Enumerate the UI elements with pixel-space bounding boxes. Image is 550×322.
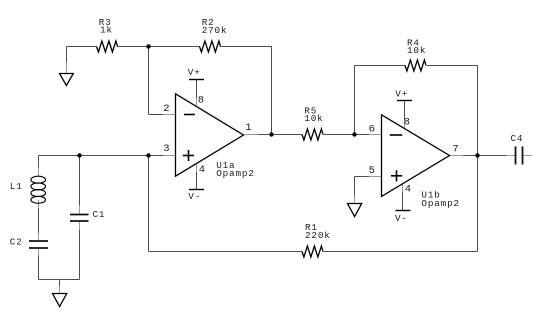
svg-text:C2: C2 — [10, 237, 23, 248]
svg-text:7: 7 — [452, 144, 458, 156]
svg-text:270k: 270k — [202, 25, 228, 36]
svg-text:6: 6 — [369, 124, 375, 136]
svg-text:V-: V- — [188, 191, 201, 202]
svg-text:10k: 10k — [304, 113, 323, 124]
svg-text:5: 5 — [369, 165, 375, 177]
svg-text:1k: 1k — [100, 24, 113, 35]
svg-text:C4: C4 — [511, 133, 524, 144]
svg-text:8: 8 — [404, 117, 410, 129]
svg-text:L1: L1 — [10, 181, 23, 192]
svg-text:Opamp2: Opamp2 — [421, 198, 460, 209]
svg-text:C1: C1 — [93, 209, 106, 220]
svg-text:1: 1 — [245, 122, 251, 134]
svg-text:V-: V- — [395, 213, 408, 224]
svg-text:220k: 220k — [305, 230, 331, 241]
svg-text:10k: 10k — [407, 45, 426, 56]
svg-text:8: 8 — [198, 95, 204, 107]
svg-text:V+: V+ — [188, 67, 201, 78]
svg-text:4: 4 — [199, 164, 205, 176]
svg-text:3: 3 — [163, 143, 169, 155]
svg-text:2: 2 — [163, 103, 169, 115]
svg-text:V+: V+ — [395, 89, 408, 100]
svg-text:4: 4 — [405, 184, 411, 196]
svg-text:Opamp2: Opamp2 — [216, 168, 255, 179]
